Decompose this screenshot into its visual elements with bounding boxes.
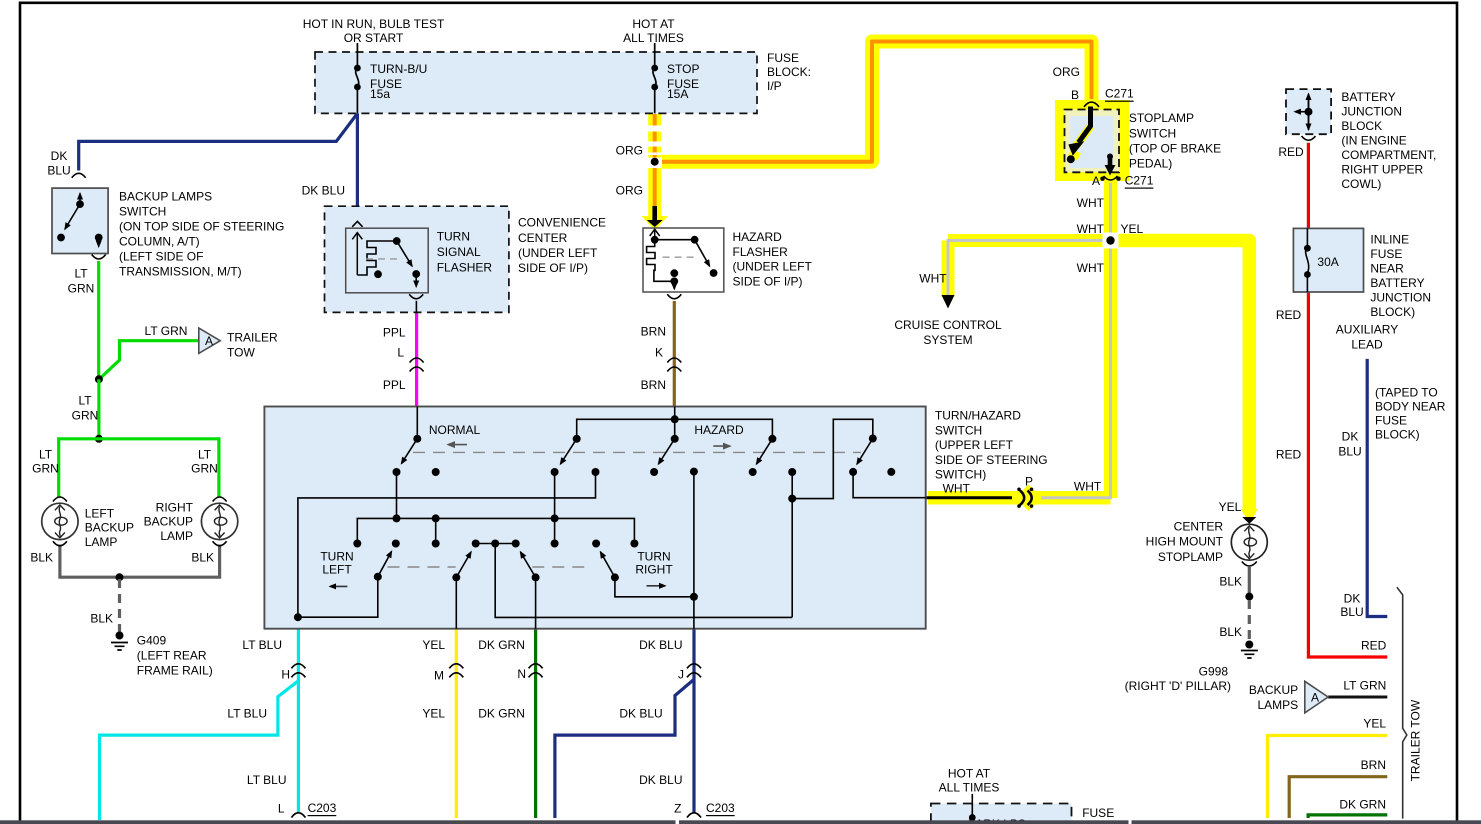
svg-text:BACKUP: BACKUP bbox=[85, 521, 134, 535]
arrow WHT to cruise control bbox=[942, 295, 955, 309]
svg-text:COMPARTMENT,: COMPARTMENT, bbox=[1341, 148, 1436, 162]
trailer tow bracket bbox=[1397, 587, 1407, 818]
svg-text:LT BLU: LT BLU bbox=[242, 638, 282, 652]
turn/hazard switch box bbox=[264, 407, 925, 629]
svg-text:LT: LT bbox=[78, 394, 92, 408]
svg-text:BRN: BRN bbox=[641, 378, 666, 392]
svg-text:SWITCH: SWITCH bbox=[935, 424, 982, 438]
svg-text:SWITCH: SWITCH bbox=[1129, 127, 1176, 141]
svg-text:HIGH MOUNT: HIGH MOUNT bbox=[1146, 535, 1224, 549]
svg-text:G998: G998 bbox=[1199, 665, 1229, 679]
svg-text:GRN: GRN bbox=[72, 409, 99, 423]
label LT GRN right bbox=[1343, 679, 1386, 693]
wire DK BLU from switch to Z C203 bbox=[692, 629, 695, 813]
label INLINE FUSE bbox=[1370, 233, 1431, 320]
svg-text:DK GRN: DK GRN bbox=[478, 638, 525, 652]
label CENTER HIGH MOUNT STOPLAMP bbox=[1146, 500, 1242, 564]
node BLK junction bbox=[116, 573, 124, 581]
svg-text:BATTERY: BATTERY bbox=[1341, 90, 1395, 104]
label CRUISE CONTROL SYSTEM bbox=[894, 318, 1002, 347]
svg-text:YEL: YEL bbox=[1121, 222, 1144, 236]
svg-text:L: L bbox=[278, 802, 285, 816]
wire BLK stoplamp to ground bbox=[1245, 567, 1253, 640]
wire LT BLU branch to frame bottom bbox=[100, 681, 299, 820]
svg-text:ORG: ORG bbox=[616, 144, 643, 158]
wire LT GRN junction to lamp bus bbox=[97, 379, 100, 439]
svg-text:(RIGHT 'D' PILLAR): (RIGHT 'D' PILLAR) bbox=[1125, 679, 1231, 693]
label TURN RIGHT with arrow bbox=[635, 549, 673, 585]
svg-text:GRN: GRN bbox=[68, 282, 95, 296]
lamp LEFT BACKUP LAMP bbox=[42, 497, 78, 546]
svg-text:RED: RED bbox=[1278, 145, 1304, 159]
label TURN-B/U FUSE 15a bbox=[370, 62, 427, 101]
svg-text:LT: LT bbox=[39, 448, 53, 462]
svg-text:BACKUP: BACKUP bbox=[144, 515, 193, 529]
wire WHT junction to cruise control bbox=[948, 241, 1111, 297]
label BACKUP LAMPS right bbox=[1249, 683, 1298, 712]
label LT GRN mid bbox=[72, 394, 99, 423]
svg-text:ALL TIMES: ALL TIMES bbox=[939, 781, 1000, 795]
svg-text:FRAME RAIL): FRAME RAIL) bbox=[137, 664, 213, 678]
connector P WHT bbox=[1015, 485, 1042, 512]
label RIGHT BACKUP LAMP bbox=[144, 501, 194, 544]
wire LT BLU from switch to C203 bbox=[297, 629, 300, 812]
svg-text:(UNDER LEFT: (UNDER LEFT bbox=[518, 246, 598, 260]
svg-text:A: A bbox=[1311, 690, 1319, 704]
svg-text:TURN: TURN bbox=[437, 230, 470, 244]
turn signal flasher bbox=[346, 221, 429, 313]
svg-text:HOT AT: HOT AT bbox=[948, 767, 991, 781]
svg-text:BLK: BLK bbox=[1219, 625, 1242, 639]
svg-text:HAZARD: HAZARD bbox=[694, 423, 744, 437]
svg-text:ORG: ORG bbox=[616, 184, 643, 198]
svg-text:FUSE: FUSE bbox=[767, 51, 799, 65]
svg-text:RED: RED bbox=[1276, 448, 1302, 462]
svg-text:LAMP: LAMP bbox=[160, 529, 193, 543]
svg-text:FUSE: FUSE bbox=[1370, 247, 1402, 261]
svg-text:BLOCK:: BLOCK: bbox=[767, 65, 811, 79]
svg-text:PEDAL): PEDAL) bbox=[1129, 157, 1172, 171]
label TURN LEFT with arrow bbox=[320, 549, 353, 586]
label G998 bbox=[1125, 665, 1231, 694]
label STOP FUSE 15A bbox=[667, 62, 699, 101]
label BRN K bbox=[641, 325, 666, 393]
svg-text:M: M bbox=[434, 669, 444, 683]
svg-text:NORMAL: NORMAL bbox=[429, 423, 481, 437]
svg-text:LAMPS: LAMPS bbox=[1258, 698, 1299, 712]
label TURN SIGNAL FLASHER bbox=[437, 230, 493, 275]
wire RED inline fuse to trailer tow bbox=[1308, 292, 1387, 657]
svg-text:(ON TOP SIDE OF STEERING: (ON TOP SIDE OF STEERING bbox=[119, 220, 284, 234]
stoplamp switch bbox=[1065, 102, 1120, 175]
svg-text:PPL: PPL bbox=[383, 378, 406, 392]
svg-text:A: A bbox=[205, 334, 213, 348]
svg-text:(TOP OF BRAKE: (TOP OF BRAKE bbox=[1129, 142, 1221, 156]
wire DK GRN from switch to bottom bbox=[534, 629, 537, 818]
label DK BLU center bbox=[302, 183, 345, 197]
label G409 bbox=[137, 634, 213, 678]
backup lamps switch bbox=[52, 173, 108, 259]
svg-text:CENTER: CENTER bbox=[518, 231, 568, 245]
svg-text:DK GRN: DK GRN bbox=[478, 707, 525, 721]
wire YEL junction to center stoplamp bbox=[1111, 241, 1258, 525]
svg-text:H: H bbox=[281, 668, 290, 682]
inline fuse 30A bbox=[1293, 228, 1363, 292]
svg-text:LT GRN: LT GRN bbox=[1343, 679, 1386, 693]
svg-text:SIDE OF I/P): SIDE OF I/P) bbox=[518, 261, 588, 275]
trailer tow connector A (left) bbox=[199, 328, 220, 353]
label WHT column bbox=[919, 196, 1143, 286]
label A C271 bbox=[1092, 174, 1154, 189]
switch lever 4 bbox=[592, 540, 698, 601]
ground G409 bbox=[111, 632, 128, 651]
svg-text:DK GRN: DK GRN bbox=[1339, 798, 1386, 812]
label LT GRN left lamp bbox=[32, 448, 59, 476]
svg-text:SIGNAL: SIGNAL bbox=[437, 245, 481, 259]
wire DK BLU fuse to convenience center bbox=[356, 113, 359, 220]
arrow YEL into stoplamp bbox=[1242, 517, 1256, 524]
switch hazard lever 1 bbox=[561, 435, 581, 464]
svg-text:TOW: TOW bbox=[227, 346, 255, 360]
label LT GRN right lamp bbox=[191, 448, 218, 476]
svg-text:(TAPED TO: (TAPED TO bbox=[1375, 386, 1438, 400]
label TAPED TO BODY bbox=[1375, 386, 1446, 442]
label DK GRN N bbox=[478, 638, 526, 721]
label BATTERY JUNCTION BLOCK bbox=[1341, 90, 1436, 191]
svg-text:YEL: YEL bbox=[422, 707, 445, 721]
svg-text:BLU: BLU bbox=[47, 164, 70, 178]
svg-text:SWITCH): SWITCH) bbox=[935, 468, 986, 482]
svg-text:BODY NEAR: BODY NEAR bbox=[1375, 400, 1446, 414]
svg-text:LT BLU: LT BLU bbox=[247, 773, 287, 787]
label TRAILER TOW vertical bbox=[1409, 699, 1423, 781]
svg-text:LT: LT bbox=[198, 448, 212, 462]
svg-text:WHT: WHT bbox=[1077, 196, 1105, 210]
svg-text:SIDE OF STEERING: SIDE OF STEERING bbox=[935, 453, 1048, 467]
svg-text:LEAD: LEAD bbox=[1351, 338, 1383, 352]
svg-text:ALL TIMES: ALL TIMES bbox=[623, 31, 684, 45]
label DK BLU J Z C203 bbox=[619, 638, 735, 816]
label CONVENIENCE CENTER bbox=[518, 216, 606, 276]
wire hazard contact column to lever4 feed bbox=[788, 419, 873, 617]
svg-text:STOPLAMP: STOPLAMP bbox=[1158, 550, 1223, 564]
svg-text:DK: DK bbox=[1342, 430, 1359, 444]
wire WHT switch to P connector (black segment) bbox=[926, 496, 1012, 499]
label DK BLU left bbox=[47, 149, 70, 178]
svg-text:WHT: WHT bbox=[1074, 480, 1102, 494]
switch hazard lever 3 bbox=[749, 435, 777, 476]
lamp RIGHT BACKUP LAMP bbox=[201, 497, 237, 546]
label BLK stoplamp bbox=[1219, 575, 1242, 640]
label WHT P WHT bbox=[943, 474, 1102, 495]
wire YEL trailer tow riser bbox=[1268, 736, 1388, 819]
svg-text:SWITCH: SWITCH bbox=[119, 205, 166, 219]
svg-text:STOPLAMP: STOPLAMP bbox=[1129, 111, 1194, 125]
svg-text:J: J bbox=[678, 668, 684, 682]
hazard flasher bbox=[643, 228, 724, 299]
ground G998 bbox=[1241, 641, 1258, 659]
wire DK GRN trailer tow riser bbox=[1308, 815, 1387, 818]
wire bus y518 bbox=[353, 514, 638, 547]
connector A backup lamps (right) bbox=[1305, 681, 1328, 713]
connector Z C203 bbox=[687, 813, 701, 818]
svg-text:G409: G409 bbox=[137, 634, 167, 648]
svg-text:TRAILER: TRAILER bbox=[227, 331, 278, 345]
hazard pivot bus bbox=[577, 407, 773, 439]
label NORMAL with arrow bbox=[429, 423, 481, 445]
label DK BLU aux bbox=[1338, 430, 1363, 620]
svg-text:BLU: BLU bbox=[1340, 605, 1363, 619]
wire BRN hazard flasher to turn/hazard switch bbox=[673, 301, 676, 407]
wire LT GRN branch to trailer tow bbox=[99, 341, 199, 380]
svg-text:BLK: BLK bbox=[30, 551, 53, 565]
wire bus y498 to LT BLU column bbox=[298, 468, 600, 617]
HIGHLIGHTS bbox=[642, 42, 1130, 499]
svg-text:TRAILER TOW: TRAILER TOW bbox=[1409, 699, 1423, 781]
svg-text:CRUISE CONTROL: CRUISE CONTROL bbox=[894, 318, 1002, 332]
label PPL L bbox=[383, 326, 406, 393]
svg-text:15A: 15A bbox=[667, 87, 688, 101]
label TRAILER TOW left bbox=[227, 331, 278, 360]
svg-text:WHT: WHT bbox=[943, 482, 971, 496]
wire DK BLU auxiliary lead bbox=[1367, 359, 1387, 617]
label TURN/HAZARD SWITCH bbox=[935, 409, 1048, 482]
connector L C203 bbox=[291, 813, 305, 818]
svg-text:FUSE: FUSE bbox=[1375, 414, 1407, 428]
svg-text:BLK: BLK bbox=[191, 551, 214, 565]
svg-text:OR START: OR START bbox=[344, 31, 404, 45]
svg-text:C203: C203 bbox=[308, 801, 337, 815]
convenience center box bbox=[325, 206, 509, 312]
svg-text:INLINE: INLINE bbox=[1370, 233, 1409, 247]
svg-text:C203: C203 bbox=[706, 801, 735, 815]
svg-text:YEL: YEL bbox=[422, 638, 445, 652]
svg-text:L: L bbox=[397, 346, 404, 360]
switch lever 5 (WHT) bbox=[849, 435, 926, 498]
label HOT AT ALL TIMES bottom bbox=[939, 767, 1115, 824]
svg-text:BATTERY: BATTERY bbox=[1370, 276, 1424, 290]
wire DK BLU branch to frame bottom bbox=[555, 679, 694, 818]
svg-text:LEFT: LEFT bbox=[85, 507, 115, 521]
connector L PPL bbox=[410, 358, 424, 372]
svg-text:RIGHT: RIGHT bbox=[156, 501, 194, 515]
svg-text:30A: 30A bbox=[1317, 255, 1338, 269]
svg-text:ORG: ORG bbox=[1053, 65, 1080, 79]
label 30A bbox=[1317, 255, 1338, 269]
svg-text:BLU: BLU bbox=[1338, 445, 1361, 459]
svg-text:(IN ENGINE: (IN ENGINE bbox=[1341, 134, 1406, 148]
connector K BRN bbox=[667, 358, 681, 372]
wire BLK left lamp to ground bus bbox=[60, 545, 220, 578]
svg-text:N: N bbox=[517, 667, 526, 681]
wire LT GRN backup lamps to trailer tow bbox=[1328, 696, 1387, 699]
label HAZARD with arrow bbox=[694, 423, 744, 446]
svg-text:TURN-B/U: TURN-B/U bbox=[370, 62, 427, 76]
label BLK lamps bbox=[30, 551, 214, 626]
wire BRN trailer tow riser bbox=[1289, 777, 1387, 818]
wire WHT P connector to junction bbox=[1033, 183, 1111, 498]
label YEL BRN DK GRN right bbox=[1339, 717, 1386, 812]
connector M YEL bbox=[449, 664, 463, 678]
connector N DK GRN bbox=[529, 664, 543, 678]
wire DK BLU fuse to backup lamps switch bbox=[79, 113, 358, 170]
svg-text:GRN: GRN bbox=[32, 462, 59, 476]
battery junction block bbox=[1286, 89, 1331, 140]
lamp CENTER HIGH MOUNT STOPLAMP bbox=[1231, 524, 1267, 566]
svg-text:CENTER: CENTER bbox=[1174, 520, 1224, 534]
svg-text:DK BLU: DK BLU bbox=[302, 183, 345, 197]
svg-text:COLUMN, A/T): COLUMN, A/T) bbox=[119, 235, 200, 249]
label HOT IN RUN bbox=[303, 17, 445, 45]
svg-text:RIGHT UPPER: RIGHT UPPER bbox=[1341, 163, 1423, 177]
label HOT AT ALL TIMES bbox=[623, 17, 684, 45]
wire ORG from STOP fuse (dashed section) bbox=[653, 114, 657, 207]
dashed mechanical link row 1 bbox=[413, 451, 861, 453]
label LT GRN trailer tow bbox=[145, 324, 188, 338]
svg-text:C271: C271 bbox=[1105, 87, 1134, 101]
node LT GRN junction 1 bbox=[95, 375, 103, 383]
node ORG junction bbox=[651, 158, 659, 166]
fuse block I/P bbox=[315, 52, 757, 113]
svg-text:NEAR: NEAR bbox=[1370, 262, 1404, 276]
svg-text:WHT: WHT bbox=[919, 272, 947, 286]
wire LT GRN lamp bus bbox=[59, 439, 219, 498]
wire DK BLU column inside switch bbox=[690, 468, 698, 629]
svg-text:LT BLU: LT BLU bbox=[227, 707, 267, 721]
wire BLK dashed to G409 bbox=[118, 579, 121, 632]
svg-text:RED: RED bbox=[1361, 639, 1387, 653]
svg-text:A: A bbox=[1092, 174, 1100, 188]
fuse block PARK LPS bbox=[931, 794, 1072, 824]
label STOPLAMP SWITCH bbox=[1129, 111, 1221, 171]
wire PPL flasher to turn/hazard switch bbox=[415, 313, 418, 406]
frame bottom bar bbox=[0, 820, 1481, 824]
svg-text:BLK: BLK bbox=[1219, 575, 1242, 589]
svg-text:CONVENIENCE: CONVENIENCE bbox=[518, 216, 606, 230]
svg-text:LEFT: LEFT bbox=[322, 563, 352, 577]
svg-text:JUNCTION: JUNCTION bbox=[1370, 291, 1431, 305]
stub contacts on bus bbox=[432, 468, 559, 548]
label FUSE BLOCK I/P bbox=[767, 51, 811, 93]
svg-text:DK: DK bbox=[51, 149, 68, 163]
svg-text:Z: Z bbox=[674, 802, 681, 816]
svg-text:WHT: WHT bbox=[1077, 222, 1105, 236]
label LEFT BACKUP LAMP bbox=[85, 507, 134, 550]
svg-text:LAMP: LAMP bbox=[85, 535, 118, 549]
svg-text:(LEFT REAR: (LEFT REAR bbox=[137, 649, 207, 663]
svg-text:HAZARD: HAZARD bbox=[733, 230, 783, 244]
svg-text:TURN/HAZARD: TURN/HAZARD bbox=[935, 409, 1021, 423]
svg-text:DK BLU: DK BLU bbox=[619, 707, 662, 721]
svg-text:LT: LT bbox=[74, 267, 88, 281]
svg-text:15a: 15a bbox=[370, 87, 390, 101]
svg-text:I/P: I/P bbox=[767, 79, 782, 93]
svg-text:C271: C271 bbox=[1125, 174, 1154, 188]
svg-text:TURN: TURN bbox=[637, 549, 670, 563]
label YEL M bbox=[422, 638, 445, 721]
label ORG x2 bbox=[616, 144, 643, 198]
svg-text:P: P bbox=[1025, 474, 1033, 488]
svg-text:HOT IN RUN, BULB TEST: HOT IN RUN, BULB TEST bbox=[303, 17, 445, 31]
svg-text:(LEFT SIDE OF: (LEFT SIDE OF bbox=[119, 250, 203, 264]
svg-text:(UPPER LEFT: (UPPER LEFT bbox=[935, 438, 1014, 452]
svg-text:BACKUP: BACKUP bbox=[1249, 683, 1298, 697]
wire YEL from switch to bottom bbox=[455, 629, 458, 818]
svg-text:(UNDER LEFT: (UNDER LEFT bbox=[733, 260, 813, 274]
switch trapezoid center contacts bbox=[472, 540, 793, 618]
svg-text:RED: RED bbox=[1276, 308, 1302, 322]
svg-text:COWL): COWL) bbox=[1341, 177, 1381, 191]
wire NORMAL contact to bus bbox=[396, 472, 398, 518]
wire ORG to stoplamp switch B bbox=[662, 42, 1092, 162]
svg-text:BRN: BRN bbox=[1361, 758, 1386, 772]
dashed mechanical link row 2 bbox=[388, 566, 591, 568]
svg-text:FUSE: FUSE bbox=[1082, 806, 1114, 820]
svg-text:DK BLU: DK BLU bbox=[639, 638, 682, 652]
svg-text:WHT: WHT bbox=[1077, 261, 1105, 275]
switch hazard lever 2 bbox=[650, 435, 679, 476]
svg-text:HOT AT: HOT AT bbox=[632, 17, 675, 31]
svg-text:YEL: YEL bbox=[1363, 717, 1386, 731]
svg-text:AUXILIARY: AUXILIARY bbox=[1336, 323, 1398, 337]
node LT GRN junction 2 bbox=[95, 435, 103, 443]
svg-text:YEL: YEL bbox=[1219, 500, 1242, 514]
svg-text:DK: DK bbox=[1344, 592, 1361, 606]
svg-text:BLOCK): BLOCK) bbox=[1370, 305, 1415, 319]
label HAZARD FLASHER bbox=[733, 230, 813, 289]
fuse TURN-B/U 15a bbox=[354, 43, 361, 113]
svg-text:RIGHT: RIGHT bbox=[635, 563, 673, 577]
svg-text:DK BLU: DK BLU bbox=[639, 773, 682, 787]
label ORG B C271 bbox=[1053, 65, 1134, 102]
switch NORMAL lever (PPL) bbox=[393, 407, 440, 477]
switch lever 3 (DK GRN) bbox=[521, 552, 540, 629]
svg-text:BACKUP LAMPS: BACKUP LAMPS bbox=[119, 190, 212, 204]
svg-text:STOP: STOP bbox=[667, 62, 699, 76]
connector J DK BLU bbox=[687, 664, 701, 678]
svg-text:TURN: TURN bbox=[320, 549, 353, 563]
svg-text:FLASHER: FLASHER bbox=[437, 261, 493, 275]
svg-text:K: K bbox=[655, 346, 663, 360]
svg-text:FLASHER: FLASHER bbox=[733, 245, 789, 259]
fuse STOP 15A bbox=[651, 43, 658, 113]
label BACKUP LAMPS SWITCH bbox=[119, 190, 284, 279]
switch lever 2 (YEL) bbox=[452, 552, 471, 629]
switch TURN LEFT lever 1 bbox=[294, 540, 400, 622]
svg-text:BLOCK: BLOCK bbox=[1341, 119, 1382, 133]
wire entry arrow ORG into hazard flasher bbox=[647, 206, 663, 227]
label LT GRN below switch bbox=[68, 267, 95, 296]
svg-text:B: B bbox=[1071, 88, 1079, 102]
svg-text:SYSTEM: SYSTEM bbox=[923, 333, 972, 347]
svg-text:BLOCK): BLOCK) bbox=[1375, 428, 1420, 442]
svg-text:GRN: GRN bbox=[191, 462, 218, 476]
svg-text:JUNCTION: JUNCTION bbox=[1341, 105, 1402, 119]
label AUXILIARY LEAD bbox=[1336, 323, 1398, 352]
svg-text:BRN: BRN bbox=[641, 325, 666, 339]
svg-text:LT GRN: LT GRN bbox=[145, 324, 188, 338]
node WHT/YEL junction bbox=[1103, 233, 1119, 249]
svg-text:PPL: PPL bbox=[383, 326, 406, 340]
wire RED battery block to inline fuse bbox=[1307, 143, 1310, 229]
svg-text:TRANSMISSION, M/T): TRANSMISSION, M/T) bbox=[119, 265, 242, 279]
svg-text:BLK: BLK bbox=[90, 612, 113, 626]
connector H LT BLU bbox=[291, 664, 305, 678]
wire LT GRN backup switch to junction bbox=[97, 261, 100, 379]
label RED x4 bbox=[1276, 145, 1387, 653]
connector A C271 bbox=[1100, 176, 1120, 181]
label LT BLU H C203 bbox=[227, 638, 336, 816]
